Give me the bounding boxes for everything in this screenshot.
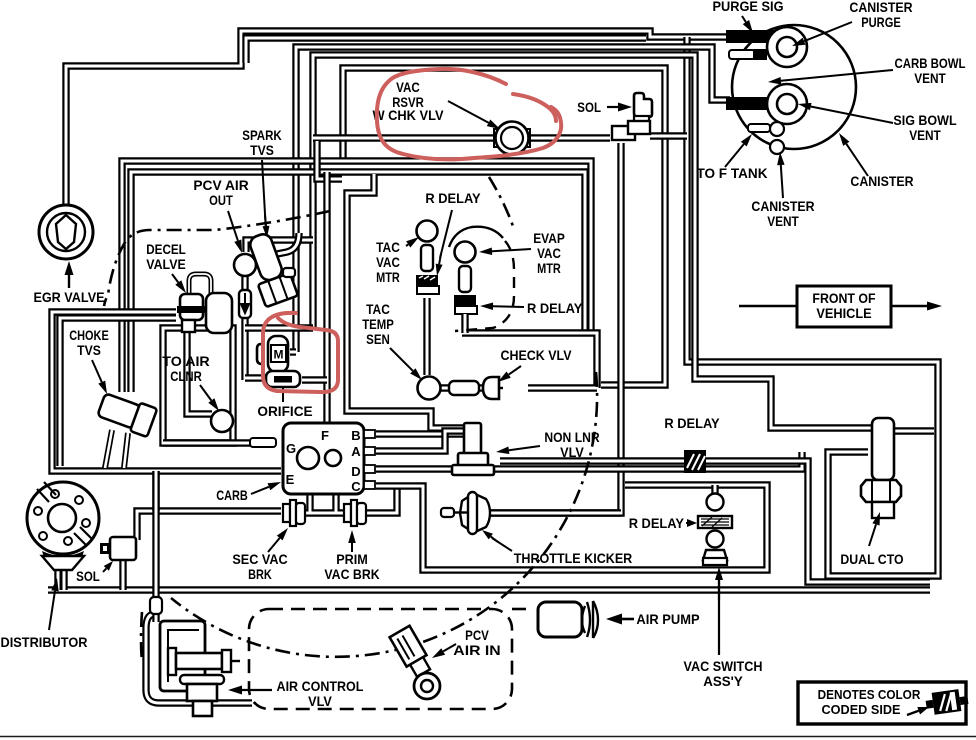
prim vac brake (344, 500, 366, 526)
red annotation vac rsvr arc (513, 94, 556, 121)
red annotation m valve loop (263, 313, 338, 392)
air cleaner dashed boundary (249, 609, 512, 709)
svg-text:TEMP: TEMP (362, 317, 394, 332)
wire air control drop (152, 471, 159, 594)
evap capsule solid arc (449, 227, 503, 247)
wire third hose to sig bowl vent (296, 47, 730, 352)
choke tvs tails (105, 430, 128, 468)
vac reservoir check valve (494, 122, 530, 155)
TO AIR CLNR label (162, 354, 209, 384)
wire staircase step (317, 141, 342, 179)
svg-text:TAC: TAC (376, 240, 400, 255)
DUAL CTO arrow (869, 512, 880, 546)
wire choke box outer (52, 312, 281, 471)
svg-text:VAC: VAC (376, 255, 400, 270)
AIR CONTROL VLV label (277, 679, 364, 709)
CARB BOWL VENT label (894, 56, 965, 86)
CANISTER PURGE arrow (792, 22, 852, 46)
dual cto nut (861, 480, 901, 502)
sig bowl nozzle (767, 84, 807, 124)
wire distributor stubs (58, 570, 64, 590)
svg-text:D: D (351, 464, 360, 479)
spark tvs side fitting (283, 268, 295, 277)
svg-text:NON LNR: NON LNR (544, 430, 599, 445)
pcv air in fitting (390, 626, 434, 679)
air pump body (538, 602, 582, 637)
svg-text:VENT: VENT (909, 128, 941, 143)
CANISTER arrow (839, 133, 868, 176)
svg-text:VENT: VENT (767, 214, 799, 229)
svg-text:ORIFICE: ORIFICE (257, 404, 312, 419)
vac switch tee (711, 485, 718, 494)
SEC VAC BRK arrow (268, 528, 288, 552)
TO F TANK label (696, 166, 767, 181)
CANISTER VENT arrow (777, 152, 785, 198)
wire rdelay to bottom right (706, 461, 930, 582)
dual cto stem (872, 418, 894, 480)
SPARK TVS label (242, 128, 282, 158)
vac switch ball 2 (707, 531, 724, 548)
CHOKE TVS arrow (92, 360, 107, 394)
wire pcv air out drop (241, 276, 248, 380)
DISTRIBUTOR label (1, 635, 88, 650)
R DELAY mid label (664, 416, 719, 431)
engine outline bottom-left (141, 612, 142, 662)
wire air control elbow (146, 614, 252, 703)
evap r delay element (454, 295, 477, 314)
svg-text:R DELAY: R DELAY (527, 301, 582, 316)
R DELAY right arrow (480, 303, 524, 311)
wire bottom long hose (48, 586, 930, 593)
TO F TANK arrow (725, 134, 752, 167)
wire sol row to canister vertical (650, 132, 687, 139)
r delay inline element (684, 450, 706, 473)
decel valve body (177, 274, 211, 332)
TAC TEMP SEN arrow (390, 348, 422, 380)
red annotation vac rsvr loop (377, 69, 561, 160)
svg-text:SEC VAC: SEC VAC (232, 552, 287, 567)
svg-text:CARB BOWL: CARB BOWL (894, 56, 965, 71)
svg-text:BRK: BRK (248, 567, 272, 582)
wire canister line down (313, 55, 872, 428)
wire sol vertical long (488, 143, 621, 513)
page bottom border (0, 736, 976, 738)
TAC VAC MTR label (376, 240, 400, 285)
PCV AIR OUT label (193, 178, 248, 208)
evap vac motor ball (455, 242, 476, 263)
svg-text:DECEL: DECEL (146, 242, 186, 257)
PCV AIR IN label (453, 628, 500, 658)
carb bowl vent tube (729, 49, 767, 60)
svg-text:DISTRIBUTOR: DISTRIBUTOR (1, 635, 88, 650)
svg-text:SIG BOWL: SIG BOWL (893, 113, 956, 128)
CHECK VLV arrow (498, 366, 521, 382)
svg-text:VAC BRK: VAC BRK (324, 567, 379, 582)
evap drop tube (461, 314, 468, 333)
EVAP VAC MTR label (533, 231, 565, 276)
ORIFICE label (257, 404, 312, 419)
wire choke box inner (60, 318, 176, 466)
wire nonlnr zigzag feed (347, 174, 464, 428)
svg-text:CHECK VLV: CHECK VLV (500, 348, 572, 363)
DECEL VALVE arrow (172, 274, 186, 293)
THROTTLE KICKER label (514, 551, 633, 566)
canister purge nozzle (767, 27, 807, 67)
svg-text:AIR IN: AIR IN (453, 643, 500, 658)
tac column tube (423, 298, 430, 375)
svg-text:FRONT OF: FRONT OF (812, 291, 875, 306)
wire bundle v2 m-valve stub (290, 348, 296, 355)
CANISTER label (850, 174, 913, 189)
air cleaner port (211, 410, 233, 432)
svg-text:ASS'Y: ASS'Y (703, 674, 743, 689)
svg-text:VAC SWITCH: VAC SWITCH (684, 659, 763, 674)
EGR VALVE label (33, 290, 104, 305)
svg-text:R DELAY: R DELAY (629, 516, 684, 531)
carburetor body (283, 423, 364, 494)
svg-text:VLV: VLV (560, 445, 584, 460)
spark tvs body (242, 230, 298, 307)
svg-text:CANISTER: CANISTER (751, 199, 814, 214)
wire dual cto right stub (892, 427, 934, 434)
engine outline arc right-bottom (171, 372, 597, 657)
wire bundle v1 spark feed (272, 233, 299, 255)
CHECK VLV label (500, 348, 572, 363)
svg-text:W CHK VLV: W CHK VLV (372, 108, 443, 123)
wire carb C row kicker box (376, 485, 767, 570)
CANISTER VENT label (751, 199, 814, 229)
air control cross fitting (168, 648, 240, 675)
CANISTER PURGE label (849, 0, 912, 30)
svg-text:TVS: TVS (250, 143, 274, 158)
air pump dashed stub (512, 608, 532, 611)
wire carb D row (376, 452, 802, 469)
NON LNR VLV arrow (496, 446, 540, 454)
legend box (798, 682, 966, 724)
canister body (732, 25, 856, 149)
svg-text:VALVE: VALVE (146, 257, 186, 272)
tac vac motor ball (417, 221, 438, 242)
svg-text:B: B (351, 428, 360, 443)
wire carb A row (376, 431, 466, 451)
distributor body (27, 482, 99, 554)
NON LNR VLV label (544, 430, 599, 460)
TO AIR CLNR arrow (200, 385, 219, 411)
CARB arrow (251, 482, 281, 494)
to f tank tube (748, 124, 770, 132)
legend text (818, 687, 921, 717)
svg-text:CODED SIDE: CODED SIDE (822, 702, 901, 717)
tac temp sensor ball (418, 377, 441, 400)
non linear valve (452, 423, 494, 475)
svg-text:PURGE: PURGE (861, 15, 901, 30)
tac vac stem (421, 245, 433, 271)
wire sol-b vertical (119, 560, 126, 590)
AIR PUMP arrow (606, 614, 634, 625)
svg-text:DENOTES COLOR: DENOTES COLOR (818, 687, 921, 702)
svg-text:VEHICLE: VEHICLE (816, 306, 871, 321)
svg-text:TVS: TVS (77, 343, 101, 358)
evap capsule dashed side (455, 241, 514, 331)
front of vehicle box (797, 286, 891, 327)
SOL bottom label (76, 569, 100, 584)
sec vac brake (283, 500, 305, 526)
air control feed capsule (150, 592, 162, 622)
svg-text:TAC: TAC (366, 302, 390, 317)
svg-text:DUAL CTO: DUAL CTO (840, 552, 903, 567)
SEC VAC BRK label (232, 552, 287, 582)
legend arrow (907, 707, 929, 715)
EGR valve (39, 205, 93, 259)
vac switch foot (703, 550, 727, 565)
carb pin stubs (364, 430, 375, 489)
choke tvs body (96, 390, 157, 437)
VAC SWITCH ASSY arrow (715, 567, 723, 655)
wire evap row (462, 333, 597, 388)
svg-text:CANISTER: CANISTER (849, 0, 912, 15)
svg-text:MTR: MTR (376, 270, 400, 285)
R DELAY vac switch label (629, 516, 684, 531)
svg-text:VLV: VLV (308, 694, 332, 709)
svg-text:R DELAY: R DELAY (664, 416, 719, 431)
wire throttle kicker right (489, 509, 621, 516)
svg-text:VAC: VAC (537, 246, 561, 261)
legend icon (925, 688, 970, 716)
wire carb B row (376, 430, 466, 437)
svg-text:SEN: SEN (366, 332, 390, 347)
engine outline arc upper segment (489, 177, 514, 229)
CARB BOWL VENT arrow (768, 70, 893, 85)
wire vac-rsvr box hose (343, 68, 665, 385)
SOL top arrow (607, 103, 632, 112)
svg-text:PURGE SIG: PURGE SIG (712, 0, 783, 14)
wire pcv feed elbow (246, 240, 313, 252)
svg-text:AIR CONTROL: AIR CONTROL (277, 679, 364, 694)
wire canister purge black segment (726, 30, 782, 43)
wire orifice left row (245, 374, 266, 381)
carb G fitting (250, 438, 276, 447)
svg-text:SPARK: SPARK (242, 128, 282, 143)
THROTTLE KICKER leader (482, 530, 512, 551)
svg-text:VENT: VENT (914, 71, 946, 86)
decel valve canister (206, 293, 232, 333)
DUAL CTO label (840, 552, 903, 567)
air pump ribs (582, 601, 598, 638)
svg-text:EVAP: EVAP (533, 231, 565, 246)
svg-text:CHOKE: CHOKE (69, 328, 109, 343)
wire egr-to-purge main hose (66, 31, 732, 206)
evap stem (459, 266, 471, 292)
wire nonlnr right row (500, 457, 684, 464)
throttle kicker (460, 492, 490, 534)
PRIM VAC BRK arrow (348, 530, 356, 552)
R DELAY top leader (436, 210, 452, 276)
PURGE SIG label (712, 0, 783, 14)
wire air cleaner box (163, 328, 233, 443)
pcv air out port (234, 254, 256, 276)
vac switch r delay (698, 516, 732, 528)
pcv air in ring (414, 673, 440, 699)
check valve symbol (449, 377, 503, 399)
canister vent ports (770, 122, 784, 154)
PCV AIR IN arrow (432, 644, 456, 658)
air control valve body (160, 621, 205, 691)
svg-text:CANISTER: CANISTER (850, 174, 913, 189)
SIG BOWL VENT label (893, 113, 956, 143)
svg-text:AIR PUMP: AIR PUMP (636, 612, 699, 627)
svg-text:TO AIR: TO AIR (162, 354, 209, 369)
wire check valve row (440, 384, 597, 391)
svg-text:F: F (321, 428, 329, 443)
solenoid bottom (100, 537, 136, 560)
svg-text:PCV AIR: PCV AIR (193, 178, 248, 193)
wire carb G feed (163, 439, 252, 446)
svg-text:CLNR: CLNR (170, 369, 202, 384)
tac r delay element (416, 275, 439, 294)
TAC VAC MTR arrow (406, 237, 419, 248)
svg-text:CARB: CARB (216, 488, 248, 503)
solenoid top (612, 93, 652, 140)
svg-text:A: A (351, 444, 361, 459)
wire second top hose (246, 38, 646, 63)
PCV AIR OUT arrow (228, 211, 242, 253)
svg-text:E: E (286, 472, 295, 487)
wire prim vac brake up (365, 485, 397, 513)
svg-text:PCV: PCV (465, 628, 489, 643)
SIG BOWL VENT arrow (798, 103, 893, 123)
svg-text:C: C (351, 479, 361, 494)
svg-text:THROTTLE KICKER: THROTTLE KICKER (514, 551, 633, 566)
W CHK VLV label (372, 108, 443, 123)
wire carb E row crossing (152, 471, 159, 511)
VAC RSVR arrow (448, 101, 500, 129)
M motor valve (257, 336, 288, 372)
wire sig bowl vent black segment (726, 97, 782, 110)
svg-text:R DELAY: R DELAY (425, 191, 480, 206)
svg-text:G: G (286, 441, 296, 456)
SOL bottom arrow (103, 561, 113, 572)
pcv drop capsule (239, 290, 251, 318)
R DELAY right label (527, 301, 582, 316)
svg-text:TO F TANK: TO F TANK (696, 166, 767, 181)
DISTRIBUTOR arrow (49, 578, 59, 630)
wire purge tee vertical (687, 37, 938, 576)
PRIM VAC BRK label (324, 552, 379, 582)
CHOKE TVS label (69, 328, 109, 358)
svg-text:VAC: VAC (396, 80, 420, 95)
VAC RSVR label (392, 80, 424, 110)
kicker stem (441, 508, 467, 517)
wire bundle v3 orifice vertical (302, 172, 327, 423)
svg-text:OUT: OUT (209, 193, 233, 208)
SOL top label (577, 100, 601, 115)
wire sec vac row (137, 511, 281, 540)
wire decel to air cleaner (187, 332, 212, 414)
wire choke row 2 (131, 172, 585, 392)
svg-text:EGR VALVE: EGR VALVE (33, 290, 104, 305)
air control flange (180, 675, 224, 716)
svg-text:MTR: MTR (537, 261, 561, 276)
wire vac reservoir row (313, 134, 610, 141)
svg-text:M: M (274, 348, 284, 362)
VAC SWITCH ASSY label (684, 659, 763, 689)
wire choke row 1 (122, 161, 591, 392)
svg-text:SOL: SOL (76, 569, 100, 584)
wire vac brake U (303, 494, 348, 513)
svg-text:PRIM: PRIM (336, 552, 368, 567)
DECEL VALVE label (146, 242, 186, 272)
EGR valve arrow (65, 261, 74, 288)
engine outline top-left (104, 211, 330, 306)
svg-text:SOL: SOL (577, 100, 601, 115)
distributor base (42, 551, 84, 570)
R DELAY top label (425, 191, 480, 206)
wire m row left (245, 324, 313, 331)
EVAP VAC MTR arrow (479, 248, 531, 256)
TAC TEMP SEN label (362, 302, 394, 347)
vac switch ball 1 (707, 494, 724, 511)
CARB label (216, 488, 248, 503)
SPARK TVS arrow (262, 160, 269, 238)
R DELAY vac switch arrow (686, 519, 697, 527)
AIR CONTROL VLV arrow (228, 686, 272, 695)
orifice body (266, 371, 300, 402)
dual cto base (872, 502, 894, 518)
PURGE SIG arrow (742, 16, 753, 33)
AIR PUMP label (636, 612, 699, 627)
front of vehicle right arrow (891, 302, 942, 311)
front of vehicle left line (739, 305, 797, 307)
